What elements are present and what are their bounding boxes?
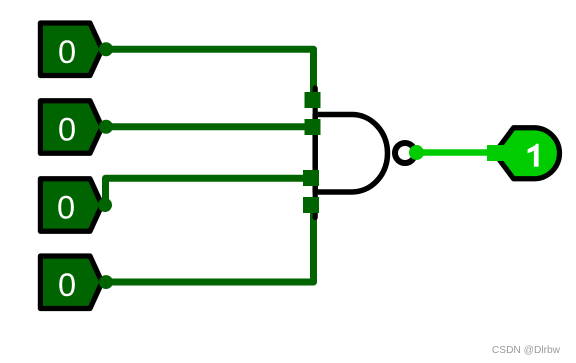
NAND input port pad 2 — [305, 119, 321, 135]
wire from P2 to NAND input 2 — [106, 123, 314, 130]
node dot at NAND output — [409, 145, 424, 160]
NAND input port pad 4 — [303, 197, 319, 213]
svg-text:0: 0 — [58, 112, 76, 148]
output pin (value 1) — [495, 128, 560, 179]
NAND gate U1 output bubble — [395, 143, 415, 163]
svg-text:0: 0 — [58, 34, 76, 70]
input pin P2 (value 0) — [40, 101, 102, 154]
node dot at P4 output — [99, 275, 113, 289]
svg-text:0: 0 — [58, 267, 76, 303]
svg-text:CSDN @Dlrbw: CSDN @Dlrbw — [492, 345, 561, 356]
node dot at P3 output — [98, 198, 112, 212]
input pin P3 (value 0) — [40, 179, 102, 232]
svg-text:0: 0 — [57, 190, 75, 226]
wire from P4 to NAND input 4 — [106, 205, 314, 282]
input pin P1 (value 0) — [40, 23, 102, 76]
wire from P1 to NAND input 1 — [106, 49, 314, 100]
NAND input port pad 3 — [303, 170, 319, 186]
input pin P4 (value 0) — [40, 256, 102, 309]
wire from NAND output to output pin — [417, 149, 498, 156]
node dot at P1 output — [99, 42, 113, 56]
node dot at P2 output — [99, 120, 113, 134]
output pin port pad — [487, 145, 504, 161]
NAND input port pad 1 — [305, 92, 321, 108]
NAND gate U1 input edge line — [313, 88, 318, 218]
wire from P3 to NAND input 3 — [106, 178, 314, 205]
NAND gate U1 body — [315, 115, 387, 193]
